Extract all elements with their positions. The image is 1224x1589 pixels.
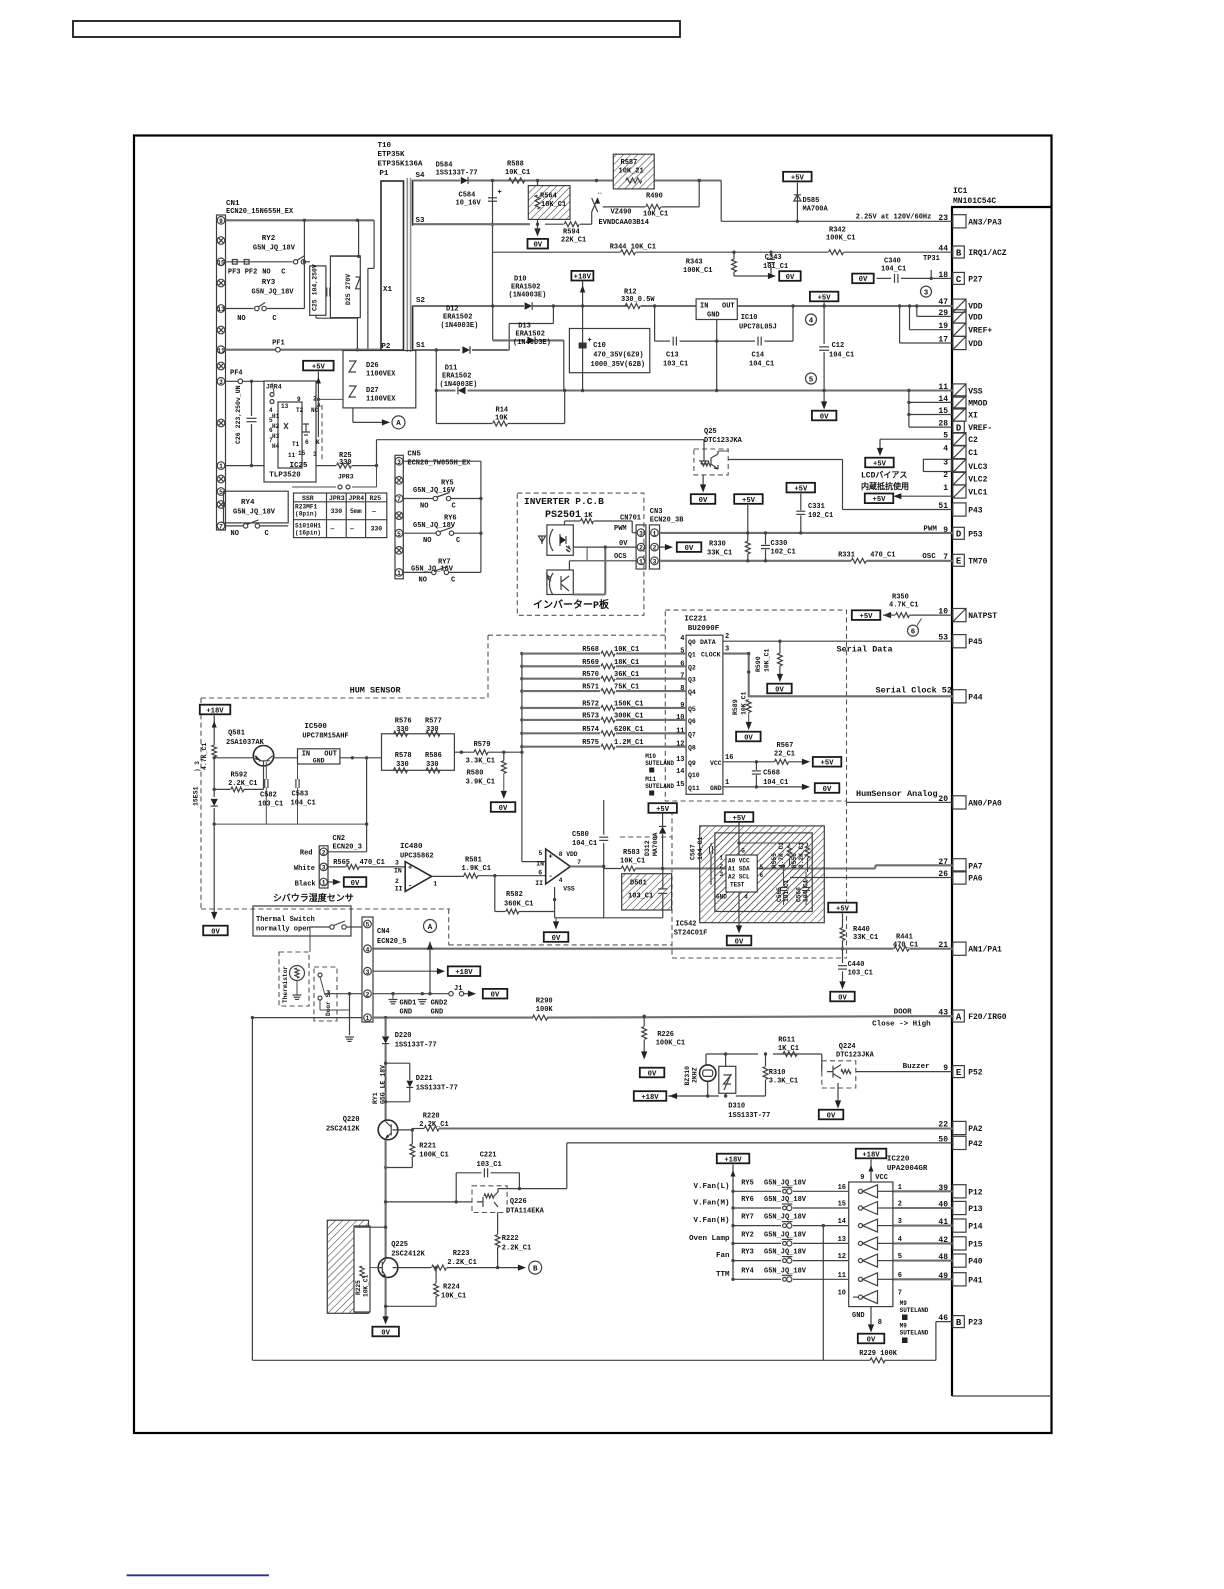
svg-text:A2 SCL: A2 SCL [728,874,750,881]
svg-text:P43: P43 [968,507,983,516]
svg-text:+18V: +18V [724,1156,742,1164]
svg-text:R440: R440 [853,926,870,934]
svg-text:H2: H2 [272,423,280,430]
svg-text:470_C1: 470_C1 [870,552,895,560]
svg-text:C12: C12 [832,342,845,350]
node B arrow [498,1267,521,1269]
wire thermistor to switch [309,927,311,952]
svg-text:100K_C1: 100K_C1 [826,235,855,243]
svg-text:CN2: CN2 [333,835,346,843]
svg-text:PWM: PWM [923,526,937,534]
svg-text:SUTELAND: SUTELAND [900,1330,929,1337]
node 5 circled [806,373,817,384]
wire serial data to pin53 P45 [723,640,953,642]
svg-text:330_0.5W: 330_0.5W [621,296,655,304]
svg-text:C583: C583 [292,790,309,798]
svg-text:ECN20_15N655H_EX: ECN20_15N655H_EX [226,208,294,216]
svg-text:+5V: +5V [836,905,850,913]
svg-text:330: 330 [426,726,439,734]
svg-text:IC10: IC10 [741,314,758,322]
svg-text:C: C [452,503,456,511]
node A circle lower [424,920,437,933]
svg-text:1SS133T-77: 1SS133T-77 [728,1112,770,1120]
svg-text:R580: R580 [467,770,484,778]
power +5V R440 [828,903,857,913]
capacitor C343 [769,251,772,254]
svg-text:NATPST: NATPST [968,612,997,621]
svg-text:A: A [428,924,433,932]
svg-text:Q6: Q6 [688,718,696,725]
svg-text:—: — [330,526,335,533]
svg-text:7: 7 [577,859,581,866]
svg-text:C584: C584 [459,192,476,200]
svg-text:AN1/PA1: AN1/PA1 [968,946,1002,955]
svg-text:16: 16 [838,1184,846,1192]
svg-text:300K_C1: 300K_C1 [614,712,643,720]
svg-text:2.2K_C1: 2.2K_C1 [228,780,257,788]
svg-text:330: 330 [396,726,409,734]
diode D11 gnd rail [436,389,455,391]
resistor R14 loop [435,391,437,424]
CN5 pin X [395,512,403,520]
svg-text:DTC123JKA: DTC123JKA [704,437,743,445]
svg-text:13: 13 [281,403,289,410]
power +18V hum [200,705,231,715]
svg-text:D220: D220 [395,1032,412,1040]
svg-text:0V: 0V [827,1112,836,1120]
svg-text:R310: R310 [769,1069,786,1077]
svg-text:GND1: GND1 [400,1000,417,1008]
resistor R223 [393,1267,432,1269]
CN701 pin 2 [637,543,645,551]
svg-text:R586: R586 [425,752,442,760]
svg-text:NO: NO [423,537,431,545]
svg-text:0V: 0V [491,992,500,1000]
svg-text:UPA2004GR: UPA2004GR [887,1165,928,1173]
svg-text:R556: R556 [791,853,798,868]
svg-text:R567: R567 [777,742,794,750]
svg-text:C343: C343 [765,254,782,262]
svg-text:NO: NO [237,315,245,323]
wire CN1 pin9 to transformer [226,219,375,221]
wire S4 rail [413,179,461,181]
svg-text:R490: R490 [646,193,663,201]
svg-text:R583: R583 [623,849,640,857]
svg-text:R229 100K: R229 100K [859,1350,898,1358]
svg-text:104_C1: 104_C1 [572,840,597,848]
svg-text:IC25: IC25 [289,462,308,470]
svg-text:-: - [549,873,553,881]
svg-text:VREF+: VREF+ [968,327,992,336]
power +5V VLC1 [865,494,894,504]
capacitor C582 [265,762,267,779]
svg-text:R568: R568 [582,646,599,654]
svg-text:+: + [588,337,592,345]
optocoupler PS2501 input [547,525,573,555]
connector CN4 [362,917,373,1022]
svg-text:INVERTER P.C.B: INVERTER P.C.B [524,496,604,507]
svg-text:M10: M10 [645,753,656,760]
svg-text:Serial Clock 52: Serial Clock 52 [876,686,953,696]
svg-text:RY4: RY4 [241,499,255,507]
svg-text:33K_C1: 33K_C1 [853,934,878,942]
svg-text:Q224: Q224 [839,1043,856,1051]
svg-text:14: 14 [676,768,684,776]
resistor R229 wire [252,1359,870,1361]
svg-text:0V: 0V [351,880,360,888]
svg-text:R23MF1: R23MF1 [295,504,318,511]
varistor D25 [330,256,360,318]
svg-text:4: 4 [809,317,814,325]
svg-text:2: 2 [720,863,724,870]
svg-text:+: + [408,865,412,873]
svg-text:1SS133T-77: 1SS133T-77 [416,1085,458,1093]
svg-text:BZ310: BZ310 [684,1066,691,1086]
wire S1 rail [413,349,460,351]
svg-text:36K_C1: 36K_C1 [614,671,639,679]
wire DOOR rail [252,1017,362,1019]
svg-text:+5V: +5V [791,174,805,182]
svg-text:MMOD: MMOD [968,399,987,408]
svg-text:VCC: VCC [710,760,722,767]
svg-text:M9: M9 [900,1300,908,1307]
diode D584 [461,177,468,184]
optocoupler IC25 TLP3520 outline [264,381,316,482]
svg-text:) 3: ) 3 [194,761,201,772]
svg-text:Q220: Q220 [343,1116,360,1124]
svg-text:VDD: VDD [968,313,983,322]
svg-text:6: 6 [911,628,916,636]
resistor R441 [894,946,909,951]
svg-text:330: 330 [339,459,352,467]
svg-text:+5V: +5V [818,294,832,302]
CN2 pin 1 [320,878,328,886]
svg-text:13: 13 [217,306,225,313]
svg-text:R594: R594 [563,229,580,237]
ground 0V CN3 pin2 [660,546,668,548]
svg-text:PA6: PA6 [968,875,983,884]
svg-text:104_C1: 104_C1 [763,779,788,787]
svg-text:4: 4 [680,635,684,643]
svg-text:P52: P52 [968,1069,983,1078]
wire OCS rail to pin7 TM70 [660,560,851,562]
wire S1 down to gnd rail [435,350,437,391]
svg-text:360K_C1: 360K_C1 [504,900,533,908]
svg-text:+5V: +5V [873,496,887,504]
resistor 4.7K_C1 vertical [212,745,217,757]
svg-text:104_C1: 104_C1 [881,266,906,274]
svg-text:R588: R588 [507,161,524,169]
svg-text:NO: NO [262,269,270,277]
svg-text:OUT: OUT [324,751,337,759]
svg-text:1: 1 [725,779,729,787]
resistor R572 [522,707,600,709]
svg-text:18K_C1: 18K_C1 [614,659,639,667]
svg-text:R344 10K_C1: R344 10K_C1 [610,244,656,252]
contact PF1 [276,347,281,352]
power +18V label box [571,271,593,281]
svg-text:ETP35K: ETP35K [378,151,406,159]
page top title box [73,21,680,37]
svg-text:2.2K_C1: 2.2K_C1 [447,1259,476,1267]
svg-text:IC220: IC220 [887,1156,910,1164]
svg-text:1: 1 [943,484,948,493]
svg-text:PWM: PWM [614,525,627,533]
svg-text:A: A [396,420,401,428]
svg-text:1100VEX: 1100VEX [366,396,396,404]
wire red sensor supply [328,851,367,853]
wire hum bus to opamp [521,752,523,861]
svg-text:3: 3 [395,860,399,867]
resistor R568 [522,653,600,655]
svg-text:IC1: IC1 [953,187,968,196]
svg-text:2.2K_C1: 2.2K_C1 [502,1245,531,1253]
svg-text:C566: C566 [796,887,803,902]
wire IC10 gnd [716,320,718,342]
dashed hum sensor boundary [201,697,488,699]
svg-text:9: 9 [860,1174,864,1182]
svg-text:1: 1 [397,570,401,577]
svg-text:5mm: 5mm [350,508,362,515]
svg-text:15: 15 [217,259,225,266]
wire Q25 emitter 0V [702,475,704,488]
svg-text:B: B [956,248,962,258]
svg-text:IC480: IC480 [400,843,423,851]
wire D13 to gnd rail [563,340,565,390]
CN4 pin 4 [364,945,372,953]
wire CN1 pin15 RY2 branch [226,261,293,263]
svg-text:D11: D11 [445,365,458,373]
wire IC10 gnd to rail [716,341,718,390]
resistor RG11 [783,1052,797,1057]
wire AN1 rail [373,948,894,950]
wire eeprom +5V [725,812,754,822]
svg-text:0V: 0V [823,786,832,794]
resistor R226 [643,1015,646,1018]
svg-text:A1 SDA: A1 SDA [728,866,750,873]
svg-text:IN: IN [700,303,708,311]
svg-text:G5G_LE_18V: G5G_LE_18V [380,1065,387,1104]
svg-text:P40: P40 [968,1258,983,1267]
svg-text:4: 4 [744,894,748,901]
svg-text:E: E [956,1068,962,1078]
CN1 pin X [217,501,225,509]
svg-text:P23: P23 [968,1319,983,1328]
svg-text:(8pin): (8pin) [295,511,317,518]
svg-text:TTM: TTM [716,1271,730,1279]
svg-text:BU2090F: BU2090F [688,625,720,633]
svg-text:0V: 0V [499,805,508,813]
transformer T10 core [406,178,408,352]
svg-text:Close -> High: Close -> High [872,1021,931,1029]
resistor R570 [522,678,600,680]
op-amp2 IC480 buffer [546,849,571,884]
svg-text:100K_C1: 100K_C1 [683,267,712,275]
svg-text:5: 5 [809,376,814,384]
svg-text:9: 9 [297,396,301,403]
svg-text:A: A [956,1012,962,1022]
svg-text:0V: 0V [381,1329,390,1337]
svg-text:P42: P42 [968,1140,983,1149]
svg-text:D581: D581 [630,880,647,888]
svg-text:(1N4003E): (1N4003E) [440,381,478,389]
svg-text:R14: R14 [496,407,509,415]
svg-text:CN5: CN5 [407,451,421,459]
resistor R12 [625,304,640,309]
svg-text:4.7K_C1: 4.7K_C1 [201,743,208,770]
CN1 pin X [217,475,225,483]
capacitor C340 TP31 to pin18 [852,274,874,284]
svg-text:Q8: Q8 [688,745,696,752]
wire OCS opto [569,560,636,562]
svg-text:DTA114EKA: DTA114EKA [506,1208,545,1216]
svg-text:(1N4003E): (1N4003E) [513,339,551,347]
svg-text:H1: H1 [272,413,280,420]
svg-text:HUM SENSOR: HUM SENSOR [350,686,402,696]
svg-text:R592: R592 [231,772,248,780]
svg-text:1.9K_C1: 1.9K_C1 [462,865,491,873]
relay RY4 box [224,491,289,523]
svg-text:Q25: Q25 [704,428,717,436]
svg-text:1: 1 [366,1015,370,1022]
svg-text:1.2M_C1: 1.2M_C1 [614,739,643,747]
svg-text:10K_C1: 10K_C1 [764,648,771,672]
svg-text:2: 2 [639,545,643,552]
svg-text:D584: D584 [436,162,453,170]
svg-text:GND: GND [400,1009,413,1017]
eeprom IC542 outer hatched box [700,826,825,923]
svg-text:3.3K_C1: 3.3K_C1 [769,1078,798,1086]
svg-text:4: 4 [559,877,563,884]
svg-text:5: 5 [397,531,401,538]
svg-text:22_C1: 22_C1 [774,751,795,759]
resistor R331 [851,558,866,563]
wire C25 D25 bottom [315,315,317,318]
capacitor C14 [717,340,755,342]
svg-text:D25 270V: D25 270V [345,274,352,305]
svg-text:OSC: OSC [922,553,936,561]
svg-text:10_16V: 10_16V [456,200,482,208]
CN1 pin X [217,279,225,287]
svg-text:100K: 100K [536,1006,554,1014]
buzzer BZ310 [700,1065,716,1081]
svg-text:104_C1: 104_C1 [697,836,704,860]
CN3 pin 1 [651,529,659,537]
svg-text:TM70: TM70 [968,557,987,566]
svg-text:1: 1 [322,880,326,887]
svg-text:+18V: +18V [455,969,473,977]
ground 0V below C12 [823,391,825,405]
svg-text:P27: P27 [968,275,983,284]
svg-text:C221: C221 [480,1152,497,1160]
svg-text:VREF-: VREF- [968,424,992,433]
svg-text:C: C [265,530,269,538]
CN1 pin 7 [217,522,225,530]
svg-text:4.7K_C1: 4.7K_C1 [778,842,785,868]
svg-text:R589: R589 [732,699,739,715]
transformer secondary S2-S1 winding [412,306,414,351]
power +5V IC25 [303,361,334,371]
svg-text:Fan: Fan [716,1252,730,1260]
power +18V relay bus [717,1154,750,1164]
resistor R567 VCC [723,761,775,763]
resistor block R576 R577 R578 R586 [382,734,455,771]
svg-text:F20/IRG0: F20/IRG0 [968,1013,1007,1022]
svg-text:A0 VCC: A0 VCC [728,858,750,865]
svg-text:II: II [395,886,403,893]
resistor R594 [564,222,579,227]
svg-text:R575: R575 [582,739,599,747]
diode PS2501 pin [539,536,546,544]
svg-text:7: 7 [397,496,401,503]
svg-text:1K_C1: 1K_C1 [778,1045,799,1053]
CN5 pin 1 [395,569,403,577]
svg-text:10: 10 [838,1290,846,1298]
capacitor C25 [310,266,326,315]
wire Q225 emitter down 0V [385,1277,387,1320]
svg-text:CN3: CN3 [650,508,663,516]
svg-text:R330: R330 [709,541,726,549]
svg-text:DTC123JKA: DTC123JKA [836,1052,875,1060]
capacitor C10 symbol [582,306,584,391]
svg-text:103_C1: 103_C1 [628,893,653,901]
diode 15ES1 [211,799,218,806]
svg-text:10K_C1: 10K_C1 [441,1293,466,1301]
svg-text:2SC2412K: 2SC2412K [326,1126,360,1134]
wire humsensor analog to pin20 [847,801,953,803]
svg-text:0V: 0V [699,497,708,505]
svg-text:Red: Red [300,850,313,858]
svg-text:P15: P15 [968,1240,983,1249]
wire R490 up to S4 [698,181,700,207]
svg-text:R578: R578 [395,752,412,760]
svg-text:P45: P45 [968,638,983,647]
capacitor C26 [251,381,253,416]
svg-text:R222: R222 [502,1235,519,1243]
svg-text:VLC3: VLC3 [968,463,987,472]
svg-text:RY3: RY3 [741,1249,754,1257]
connector CN701 [636,525,646,569]
svg-text:GND2: GND2 [431,1000,448,1008]
door switch box [314,967,337,1021]
svg-text:IN: IN [302,751,310,759]
svg-text:H3: H3 [272,433,280,440]
svg-text:C568: C568 [763,770,780,778]
wire CN1 pin13 RY3 [226,308,254,310]
svg-text:CN701: CN701 [620,515,641,523]
svg-text:RY7: RY7 [741,1214,754,1222]
svg-text:GND: GND [431,1009,444,1017]
svg-text:R572: R572 [582,700,599,708]
svg-text:15: 15 [838,1201,846,1209]
svg-text:C25 104,250V: C25 104,250V [312,264,319,311]
resistor R581 [464,873,478,878]
svg-text:VDD: VDD [968,340,983,349]
svg-text:470_C1: 470_C1 [893,941,918,949]
svg-text:100K_C1: 100K_C1 [419,1152,448,1160]
svg-text:3: 3 [219,379,223,386]
svg-text:6: 6 [305,439,309,446]
capacitor C330 [765,533,767,545]
svg-text:+5V: +5V [733,815,747,823]
svg-text:5: 5 [219,489,223,496]
svg-text:8: 8 [878,1319,882,1327]
svg-text:ECN20_3B: ECN20_3B [650,517,684,525]
svg-text:EVNDCAA03B14: EVNDCAA03B14 [599,219,649,227]
svg-text:1: 1 [653,530,657,537]
svg-text:Q5: Q5 [688,706,696,713]
transistor Q226 DTA114EKA [472,1186,507,1213]
